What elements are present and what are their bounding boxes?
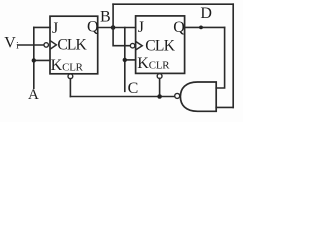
svg-text:CLK: CLK <box>57 37 87 54</box>
svg-text:D: D <box>200 5 212 22</box>
clock bubble U2 <box>130 43 135 48</box>
wire NAND input 2 stub <box>216 106 233 108</box>
svg-text:Vi: Vi <box>4 35 19 52</box>
svg-text:J: J <box>52 20 58 37</box>
wire node B down to CLK2 <box>113 28 130 46</box>
clock bubble U1 <box>44 43 49 48</box>
svg-text:A: A <box>28 87 39 103</box>
wire K2 input <box>125 59 136 61</box>
node B junction dot <box>111 25 116 30</box>
svg-text:CLK: CLK <box>145 37 176 54</box>
svg-text:J: J <box>138 19 144 36</box>
NAND gate G1 body (mirrored, output left) <box>180 82 216 111</box>
wire CLR feedback horizontal <box>70 96 174 98</box>
wire J1 input <box>34 26 50 28</box>
flip-flop U2 box <box>136 16 185 74</box>
clock edge triangle U2 <box>136 42 142 50</box>
svg-text:Q: Q <box>173 19 185 36</box>
wire CLR1 down <box>69 79 71 97</box>
wire K1 input <box>34 59 50 61</box>
wire node B up to top feedback <box>112 4 114 27</box>
wire CLR2 down <box>159 79 161 97</box>
flip-flop U1 box <box>50 16 98 74</box>
wire Q1 to J2 (node B) <box>98 27 136 29</box>
svg-text:KCLR: KCLR <box>137 55 170 72</box>
wire right feedback down <box>232 4 234 107</box>
svg-text:KCLR: KCLR <box>51 57 84 74</box>
node K2 junction dot <box>123 58 127 62</box>
clear bubble U2 <box>157 74 162 79</box>
clock edge triangle U1 <box>51 41 57 49</box>
node D junction dot <box>199 26 203 30</box>
wire J1-K1 tie vertical (node A) <box>33 27 35 88</box>
wire Q2 to node D <box>185 26 225 28</box>
wire node D down to NAND input 1 <box>216 27 224 88</box>
svg-text:Q: Q <box>87 19 99 36</box>
svg-text:B: B <box>100 9 111 26</box>
svg-text:C: C <box>128 80 139 97</box>
wire J2-K2 tie vertical (node C) <box>124 28 126 92</box>
clear bubble U1 <box>68 74 73 79</box>
NAND gate G1 output bubble <box>175 93 180 98</box>
wire top feedback <box>113 3 233 5</box>
node K1 junction dot <box>32 58 36 62</box>
CLR junction dot <box>157 94 162 99</box>
wire Vi input <box>19 44 45 46</box>
